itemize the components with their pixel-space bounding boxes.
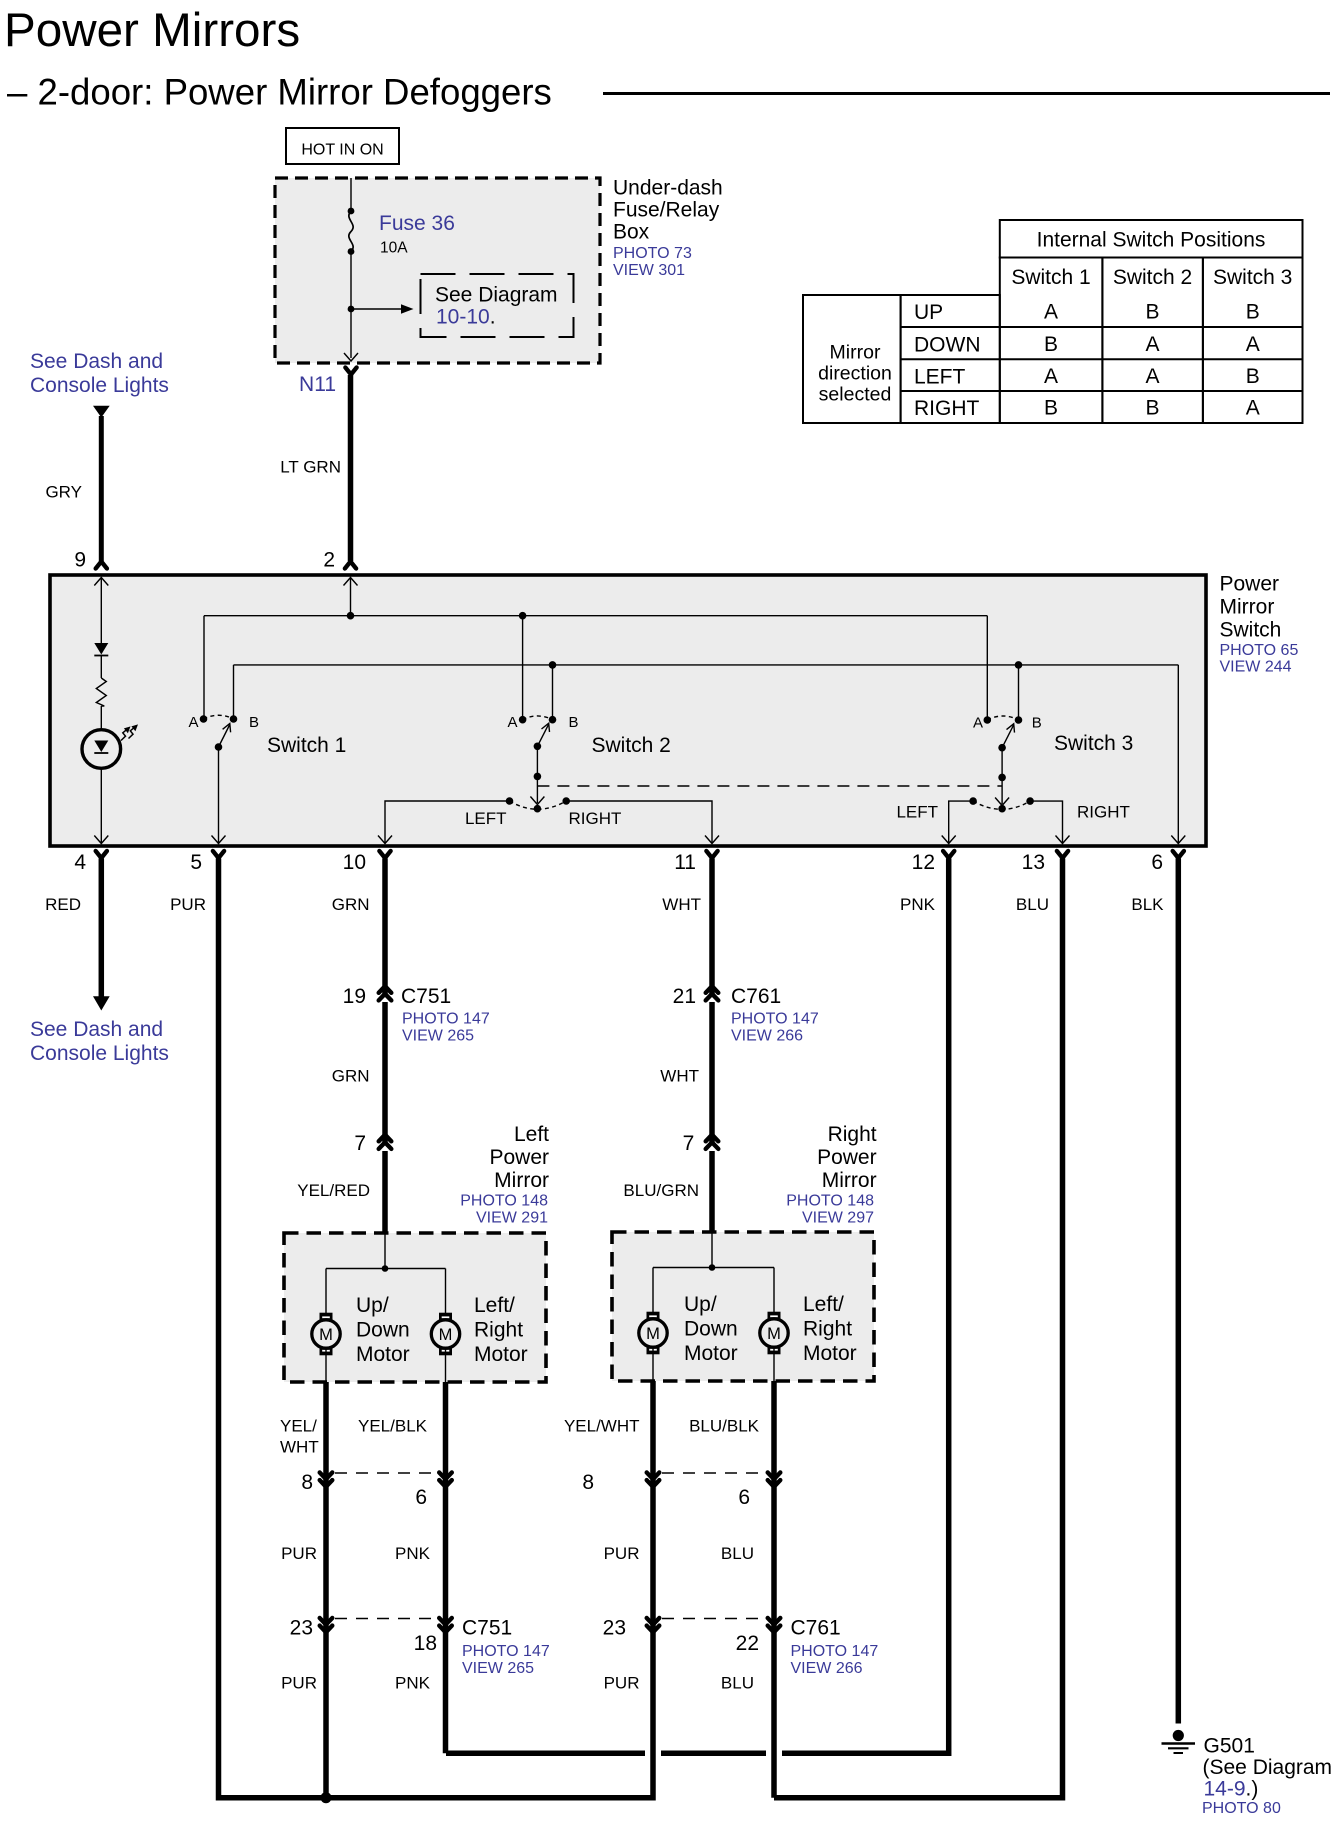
pin 12 exit arrow [942, 836, 956, 844]
svg-text:UP: UP [914, 301, 943, 324]
svg-text:PHOTO 73: PHOTO 73 [613, 245, 692, 262]
svg-text:8: 8 [582, 1471, 594, 1494]
link PHOTO 73 / VIEW 301 [613, 245, 692, 279]
pin 9 entry arrow [94, 578, 108, 586]
connector dashed link 23-18 x326 [335, 1618, 437, 1620]
switch 2 stem lower [536, 776, 538, 803]
pin 4 exit arrow [94, 836, 108, 844]
svg-text:Switch 1: Switch 1 [1011, 266, 1090, 289]
svg-text:LEFT: LEFT [465, 809, 507, 828]
svg-text:See Dash and: See Dash and [30, 350, 163, 373]
svg-text:Power: Power [817, 1146, 877, 1169]
switch 1 contact A [200, 715, 208, 723]
link PHOTO 148 / VIEW 291 [460, 1193, 548, 1227]
connector dashed link 23-22 x653 [662, 1618, 765, 1620]
svg-text:B: B [1246, 365, 1260, 388]
svg-text:PUR: PUR [604, 1674, 640, 1693]
resistor R1 [96, 678, 106, 706]
svg-text:VIEW 266: VIEW 266 [791, 1660, 863, 1677]
svg-text:Up/: Up/ [356, 1294, 389, 1317]
pin 5 exit arrow [212, 836, 226, 844]
link C761 PHOTO 147 / VIEW 266 [731, 1011, 819, 1045]
svg-text:23: 23 [290, 1617, 313, 1640]
svg-text:BLU: BLU [721, 1544, 754, 1563]
switch 3 pivot [998, 744, 1006, 752]
right power mirror box internal bus [653, 1267, 774, 1269]
table row label Mirror direction selected [818, 342, 892, 406]
connector chevrons 6 at x774 [768, 1473, 781, 1487]
svg-text:VIEW 265: VIEW 265 [402, 1028, 474, 1045]
svg-text:selected: selected [819, 384, 892, 406]
switch 1 arm [219, 724, 231, 748]
switch 3 RIGHT contact [1026, 797, 1034, 805]
svg-text:Under-dash: Under-dash [613, 177, 723, 200]
table frame [803, 220, 1303, 423]
svg-text:21: 21 [673, 985, 696, 1008]
fuse F36 node [348, 208, 355, 215]
svg-text:N11: N11 [299, 373, 336, 396]
right power mirror box up/down motor M [639, 1312, 667, 1355]
link See Dash and Console Lights (top) [30, 350, 169, 397]
left power mirror box up/down motor M output wire [325, 1348, 327, 1382]
svg-text:7: 7 [354, 1132, 366, 1155]
svg-text:A: A [973, 715, 983, 732]
left power mirror box left/right motor feed [445, 1269, 447, 1314]
wire fuse to junction [350, 252, 352, 310]
wire sw2 LEFT to pin 10 [385, 801, 510, 843]
svg-text:Right: Right [474, 1319, 523, 1342]
right power mirror box left/right motor M [760, 1312, 788, 1355]
HOT IN ON box [286, 128, 399, 164]
wire GRY [99, 416, 104, 561]
svg-text:12: 12 [912, 851, 935, 874]
pin 6 fork [1173, 851, 1184, 858]
connector C761 pin21 chevrons [706, 986, 719, 1000]
wire bus2 to pin 6 [1177, 665, 1179, 843]
bus wire 2 [234, 664, 1179, 666]
switch 1 contact B [230, 715, 238, 723]
svg-text:See Diagram: See Diagram [435, 284, 558, 307]
svg-text:B: B [249, 714, 259, 731]
switch 3 rocker arc [973, 801, 1030, 809]
svg-text:VIEW 301: VIEW 301 [613, 262, 685, 279]
switch 1 travel arc [204, 715, 234, 719]
switch 3 stem lower [1001, 777, 1003, 804]
bus1 node sw2 [519, 612, 527, 620]
svg-text:B: B [1145, 397, 1159, 420]
switch 3 travel arc [987, 716, 1018, 720]
svg-text:PUR: PUR [604, 1544, 640, 1563]
right power mirror box feed wire [711, 1232, 713, 1268]
svg-text:Right: Right [803, 1318, 852, 1341]
switch 2 rocker center [534, 805, 542, 813]
wire bus2 to sw1 B [233, 665, 235, 719]
wire pin2 to bus1 [350, 578, 352, 616]
arrow to See Diagram [351, 304, 414, 314]
svg-text:A: A [1246, 333, 1260, 356]
under-dash fuse/relay box [275, 178, 600, 363]
svg-text:Switch 3: Switch 3 [1054, 732, 1133, 755]
svg-text:Down: Down [684, 1318, 738, 1341]
wire PUR pin5 to bus [219, 859, 327, 1798]
left power mirror box up/down motor feed [325, 1269, 327, 1314]
svg-text:Switch 1: Switch 1 [267, 734, 346, 757]
svg-text:M: M [439, 1326, 453, 1344]
svg-text:PNK: PNK [395, 1674, 431, 1693]
wire bus1 to sw3 A [986, 616, 988, 720]
wire sw2 RIGHT to pin 11 [566, 801, 712, 843]
pin 6 exit arrow [1171, 836, 1185, 844]
svg-text:YEL/BLK: YEL/BLK [358, 1417, 428, 1436]
svg-text:PNK: PNK [900, 895, 936, 914]
svg-text:See Dash and: See Dash and [30, 1018, 163, 1041]
svg-text:DOWN: DOWN [914, 334, 981, 357]
wire resistor to LED [100, 706, 102, 730]
PNK bus crossing gap 2 [766, 1749, 782, 1758]
wire bus1 to sw1 A [203, 616, 205, 719]
wire bus2 to sw3 B [1018, 665, 1020, 720]
svg-text:B: B [1044, 333, 1058, 356]
svg-text:BLU/GRN: BLU/GRN [623, 1181, 699, 1200]
svg-text:YEL/: YEL/ [280, 1417, 317, 1436]
pin 13 exit arrow [1056, 836, 1070, 844]
fuse F36 lower node [348, 248, 355, 255]
wire sw3 LEFT to pin 12 [949, 801, 973, 843]
svg-text:C761: C761 [731, 985, 781, 1008]
svg-text:8: 8 [301, 1471, 313, 1494]
svg-text:10A: 10A [380, 240, 408, 257]
svg-text:Fuse 36: Fuse 36 [379, 212, 455, 235]
svg-text:PNK: PNK [395, 1544, 431, 1563]
link C751 lower PHOTO/VIEW [462, 1643, 550, 1677]
svg-text:RED: RED [45, 895, 81, 914]
svg-text:6: 6 [415, 1486, 427, 1509]
wire GRN pin10 mid [382, 1002, 388, 1142]
svg-text:10-10.: 10-10. [436, 306, 496, 329]
fuse 36 element [349, 211, 353, 252]
switch 3 stem node [998, 774, 1006, 782]
svg-text:A: A [1145, 365, 1159, 388]
svg-text:GRN: GRN [332, 895, 370, 914]
svg-text:PUR: PUR [281, 1674, 317, 1693]
switch 2 arm [537, 723, 549, 746]
svg-text:RIGHT: RIGHT [1077, 803, 1130, 822]
right power mirror box feed node [709, 1264, 716, 1271]
pin 11 exit arrow [705, 836, 719, 844]
wire WHT pin11 upper [709, 859, 715, 995]
svg-text:M: M [646, 1325, 660, 1343]
svg-text:WHT: WHT [660, 1067, 699, 1086]
wire LED to pin 4 [100, 767, 102, 843]
switch 3 LEFT contact [969, 797, 977, 805]
link See Dash and Console Lights (bottom) [30, 1018, 169, 1065]
svg-text:M: M [319, 1326, 333, 1344]
switch 2 pivot [534, 743, 542, 751]
pin 2 fork [345, 562, 356, 569]
switch 2 contact A [519, 716, 527, 724]
left power mirror box feed node [382, 1265, 389, 1272]
svg-text:Power: Power [489, 1146, 549, 1169]
wire PNK pin12 [446, 859, 949, 1754]
svg-text:LEFT: LEFT [914, 365, 966, 388]
svg-text:PHOTO 65: PHOTO 65 [1220, 642, 1299, 659]
svg-text:VIEW 297: VIEW 297 [802, 1210, 874, 1227]
svg-text:Switch 3: Switch 3 [1213, 266, 1292, 289]
left power mirror box label Up/Down Motor [356, 1294, 410, 1366]
svg-text:Right: Right [828, 1123, 877, 1146]
pin 2 entry arrow [344, 578, 358, 586]
mechanical coupling link [537, 785, 1002, 787]
svg-text:PUR: PUR [281, 1544, 317, 1563]
svg-text:6: 6 [738, 1486, 750, 1509]
label See Diagram 14-9 [1203, 1756, 1333, 1801]
switch 2 stem [536, 746, 538, 776]
svg-text:A: A [1044, 365, 1058, 388]
svg-text:WHT: WHT [662, 895, 701, 914]
label Under-dash Fuse/Relay Box [613, 177, 723, 244]
LED indicator [82, 730, 121, 769]
link PHOTO 148 / VIEW 297 [786, 1193, 874, 1227]
svg-text:Down: Down [356, 1319, 410, 1342]
bus2 node sw3 [1015, 661, 1023, 669]
pin 10 exit arrow [378, 836, 392, 844]
svg-text:23: 23 [603, 1617, 626, 1640]
wire WHT pin11 mid [709, 1002, 715, 1142]
svg-text:RIGHT: RIGHT [569, 809, 622, 828]
wire junction to N11 [350, 309, 352, 358]
svg-text:Left/: Left/ [803, 1293, 844, 1316]
svg-text:GRN: GRN [332, 1067, 370, 1086]
svg-text:Motor: Motor [474, 1343, 528, 1366]
right power mirror box left/right motor M output wire [773, 1347, 775, 1381]
svg-text:VIEW 266: VIEW 266 [731, 1028, 803, 1045]
svg-text:13: 13 [1022, 851, 1045, 874]
bus junction PUR [321, 1792, 332, 1803]
wire from HOT IN ON [350, 178, 352, 211]
svg-text:10: 10 [343, 851, 366, 874]
left power mirror box [284, 1233, 546, 1382]
svg-text:(See Diagram: (See Diagram [1203, 1756, 1333, 1779]
link C751 PHOTO 147 / VIEW 265 [402, 1011, 490, 1045]
svg-text:Internal Switch Positions: Internal Switch Positions [1037, 229, 1266, 252]
svg-text:PHOTO 148: PHOTO 148 [786, 1193, 874, 1210]
svg-text:Mirror: Mirror [822, 1169, 877, 1192]
bus wire 1 [204, 615, 987, 617]
svg-text:C761: C761 [791, 1617, 841, 1640]
left power mirror box left/right motor M output wire [445, 1348, 447, 1382]
arrow from dash lights [93, 406, 110, 418]
svg-text:VIEW 265: VIEW 265 [462, 1660, 534, 1677]
table row DOWN [914, 333, 1260, 357]
svg-text:BLU: BLU [721, 1674, 754, 1693]
svg-text:18: 18 [414, 1632, 437, 1655]
left power mirror box left/right motor M [431, 1313, 459, 1356]
wire BLK pin6 to ground [1176, 859, 1182, 1724]
connector chevrons 22 at x774 [768, 1618, 781, 1632]
switch 2 rocker arrow [530, 797, 544, 805]
wire LT GRN [348, 375, 354, 561]
switch 2 RIGHT contact [562, 797, 570, 805]
svg-text:A: A [1044, 301, 1058, 324]
diode D1 [94, 643, 108, 656]
pin 4 fork [96, 851, 107, 858]
svg-text:VIEW 244: VIEW 244 [1220, 659, 1292, 676]
wire diode to resistor [100, 656, 102, 679]
svg-text:Motor: Motor [356, 1343, 410, 1366]
ground G501 symbol [1162, 1730, 1196, 1753]
svg-text:C751: C751 [401, 985, 451, 1008]
right power mirror box label Left/Right Motor [803, 1293, 857, 1365]
left power mirror box label Left/Right Motor [474, 1294, 528, 1366]
svg-text:9: 9 [74, 549, 86, 572]
svg-text:A: A [1145, 333, 1159, 356]
svg-text:C751: C751 [462, 1617, 512, 1640]
power mirror switch box [50, 575, 1206, 846]
svg-text:GRY: GRY [45, 483, 82, 502]
svg-text:Console Lights: Console Lights [30, 1042, 169, 1065]
connector chevrons 23 at x653 [647, 1618, 660, 1632]
switch 3 rocker arrow [995, 798, 1009, 806]
svg-text:PHOTO 147: PHOTO 147 [731, 1011, 819, 1028]
svg-text:B: B [569, 714, 579, 731]
wire sw1 to pin 5 [218, 747, 220, 843]
switch 3 rocker center [998, 805, 1006, 813]
See Diagram 10-10 box [421, 274, 574, 337]
right power mirror box label Up/Down Motor [684, 1293, 738, 1365]
svg-text:Left: Left [514, 1123, 549, 1146]
bus2 node sw2 [549, 661, 557, 669]
svg-text:11: 11 [674, 851, 696, 874]
switch 3 stem [1001, 748, 1003, 778]
svg-text:PHOTO 148: PHOTO 148 [460, 1193, 548, 1210]
switch 3 contact B [1015, 716, 1023, 724]
left power mirror box feed wire [384, 1233, 386, 1269]
header rule [603, 92, 1330, 95]
left power mirror box internal bus [326, 1268, 446, 1270]
connector N11 fork [345, 368, 356, 375]
svg-text:PHOTO 147: PHOTO 147 [462, 1643, 550, 1660]
wire BLU/BLK (right mirror) [771, 1381, 777, 1798]
LED emission arrows [121, 724, 138, 740]
svg-text:4: 4 [74, 851, 86, 874]
svg-text:A: A [188, 714, 198, 731]
wire sw3 RIGHT to pin 13 [1030, 801, 1062, 843]
svg-text:BLK: BLK [1131, 895, 1164, 914]
svg-text:14-9.): 14-9.) [1204, 1778, 1259, 1801]
table row UP [914, 301, 1260, 325]
svg-text:RIGHT: RIGHT [914, 397, 980, 420]
svg-text:22: 22 [736, 1632, 759, 1655]
label Power Mirror Switch [1220, 573, 1282, 642]
switch 2 contact B [549, 716, 557, 724]
svg-text:Switch: Switch [1220, 619, 1282, 642]
switch 2 travel arc [523, 716, 553, 720]
svg-text:Motor: Motor [803, 1342, 857, 1365]
PNK bus crossing gap 1 [645, 1749, 661, 1758]
svg-text:Power: Power [1220, 573, 1280, 596]
pin 10 fork [379, 851, 390, 858]
connector dashed link 8-6 x326 [335, 1472, 437, 1474]
svg-text:B: B [1246, 301, 1260, 324]
connector dashed link 8-6 x653 [662, 1472, 765, 1474]
svg-text:Up/: Up/ [684, 1293, 717, 1316]
svg-text:Mirror: Mirror [830, 342, 881, 364]
svg-text:PUR: PUR [170, 895, 206, 914]
wire YEL/WHT (left mirror) [323, 1382, 329, 1798]
svg-text:– 2-door: Power Mirror Defogge: – 2-door: Power Mirror Defoggers [7, 72, 552, 113]
svg-text:YEL/WHT: YEL/WHT [564, 1417, 640, 1436]
svg-text:BLU/BLK: BLU/BLK [689, 1417, 760, 1436]
wire bus1 to sw2 A [522, 616, 524, 720]
connector chevrons 8 at x653 [647, 1473, 660, 1487]
wire YEL/RED to left mirror [382, 1151, 388, 1233]
svg-text:5: 5 [190, 851, 202, 874]
wire RED pin4 to dash lights [99, 859, 105, 998]
connector chevrons 23 at x326 [320, 1618, 333, 1632]
wire bus2 to sw2 B [552, 665, 554, 720]
wire GRN pin10 upper [382, 859, 388, 995]
right power mirror box up/down motor M output wire [652, 1347, 654, 1381]
svg-text:A: A [1246, 397, 1260, 420]
link C761 lower PHOTO/VIEW [791, 1643, 879, 1677]
wire BLU pin13 [774, 859, 1063, 1798]
svg-text:7: 7 [683, 1132, 695, 1155]
svg-text:LT GRN: LT GRN [280, 458, 341, 477]
svg-text:Switch 2: Switch 2 [1113, 266, 1192, 289]
switch 2 LEFT contact [506, 797, 514, 805]
switch 2 stem node [534, 773, 542, 781]
junction to see-diagram [348, 306, 355, 313]
svg-text:Fuse/Relay: Fuse/Relay [613, 199, 720, 222]
connector chevrons 6 at x445.5 [439, 1473, 452, 1487]
right power mirror box left/right motor feed [773, 1268, 775, 1313]
pin 13 fork [1057, 851, 1068, 858]
wire YEL/WHT (right mirror) [326, 1381, 653, 1798]
wire pin9 to diode [100, 578, 102, 644]
svg-text:Mirror: Mirror [494, 1169, 549, 1192]
pin 9 fork [96, 562, 107, 569]
table row RIGHT [914, 397, 1260, 420]
switch 2 rocker arc [510, 801, 567, 809]
wire YEL/BLK (left mirror) [443, 1382, 449, 1753]
svg-text:Motor: Motor [684, 1342, 738, 1365]
wire BLU/GRN to right mirror [709, 1151, 715, 1232]
right power mirror box up/down motor feed [652, 1268, 654, 1313]
label Right Power Mirror [817, 1123, 877, 1192]
svg-text:PHOTO 147: PHOTO 147 [402, 1011, 490, 1028]
svg-text:B: B [1032, 715, 1042, 732]
svg-text:B: B [1044, 397, 1058, 420]
left power mirror box up/down motor M [312, 1313, 340, 1356]
connector C751 pin19 chevrons [379, 986, 392, 1000]
svg-text:direction: direction [818, 363, 892, 385]
svg-text:Box: Box [613, 221, 650, 244]
connector pin7 chevrons (right) [706, 1135, 719, 1149]
svg-text:YEL/RED: YEL/RED [297, 1181, 370, 1200]
svg-text:PHOTO 147: PHOTO 147 [791, 1643, 879, 1660]
link PHOTO 65 / VIEW 244 [1220, 642, 1299, 676]
svg-text:19: 19 [343, 985, 366, 1008]
svg-text:G501: G501 [1204, 1735, 1255, 1758]
svg-text:LEFT: LEFT [896, 803, 938, 822]
pin 11 fork [706, 851, 717, 858]
switch 3 arm [1002, 724, 1014, 748]
connector chevrons 8 at x326 [320, 1473, 333, 1487]
svg-text:Switch 2: Switch 2 [592, 734, 671, 757]
bus1 node pin2 [347, 612, 355, 620]
switch 3 contact A [984, 716, 992, 724]
switch 1 pivot [215, 743, 223, 751]
